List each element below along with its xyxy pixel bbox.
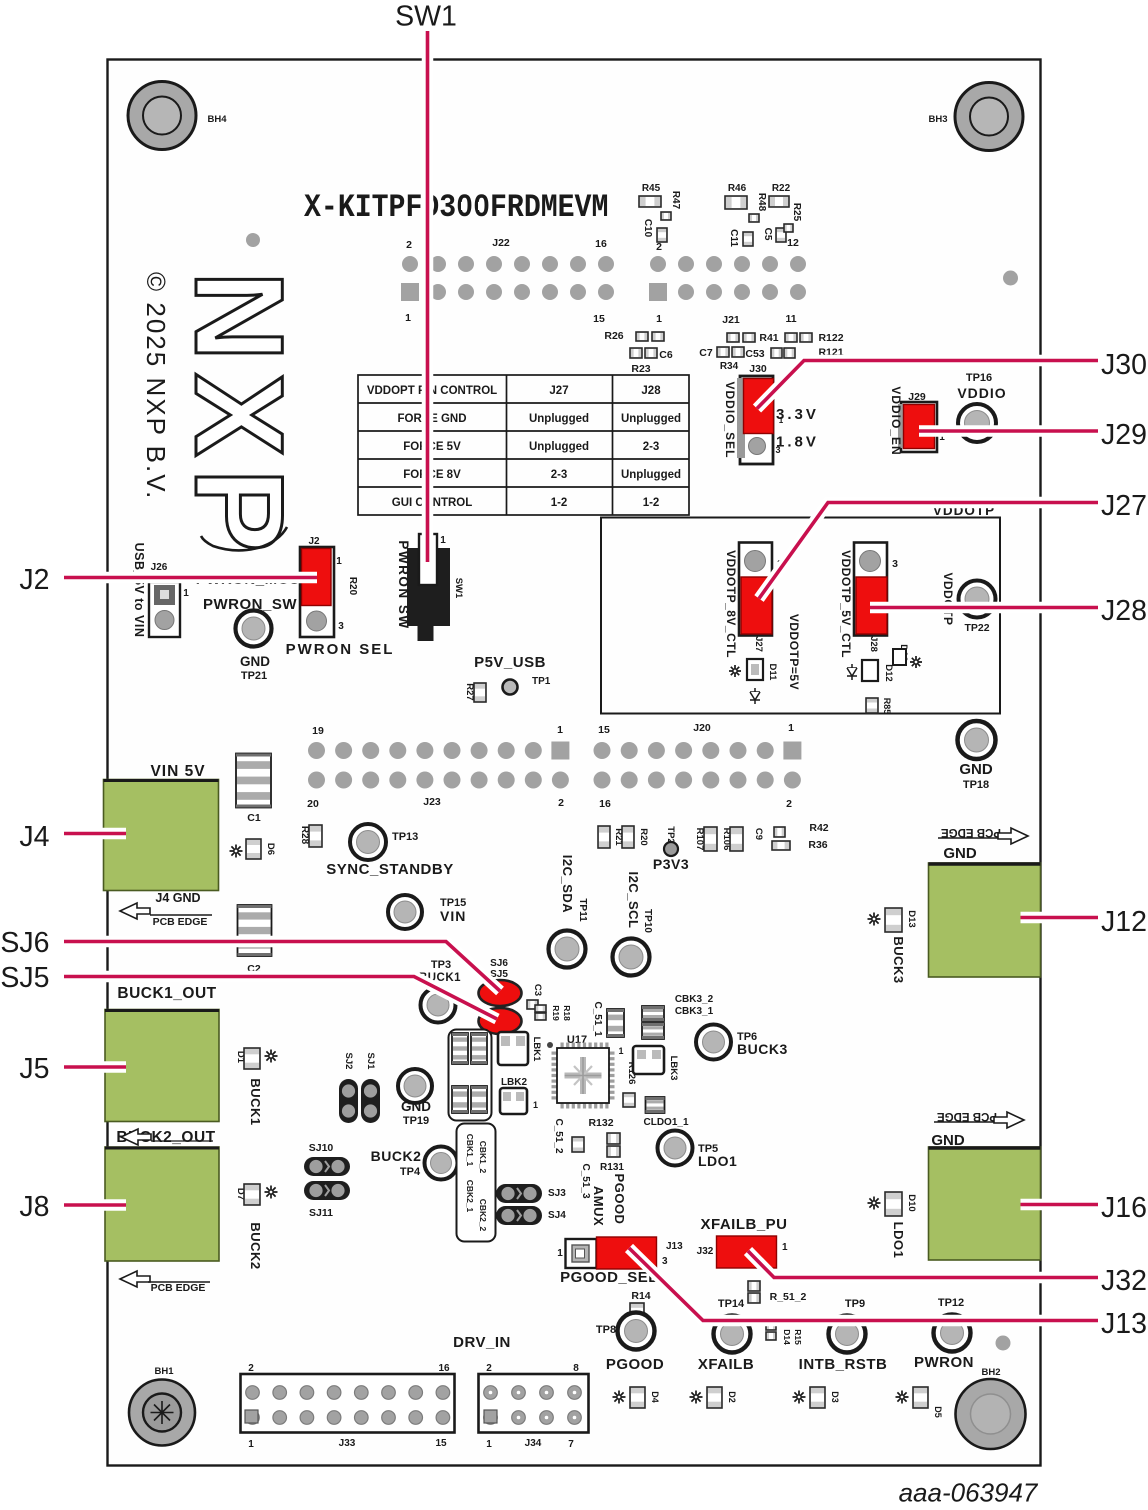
leader J27: [759, 503, 1098, 599]
mounting hole BH1: [129, 1380, 195, 1446]
LED D4: [613, 1387, 661, 1408]
svg-text:TP11: TP11: [577, 898, 588, 922]
svg-text:CBK1_2: CBK1_2: [478, 1141, 488, 1174]
capacitor CLDO1_1: [643, 1097, 688, 1128]
svg-text:3: 3: [892, 558, 898, 570]
resistor R22: [769, 183, 791, 207]
svg-text:15: 15: [593, 313, 605, 325]
svg-text:J4: J4: [19, 821, 49, 853]
svg-text:SJ6: SJ6: [0, 927, 49, 959]
svg-text:R34: R34: [720, 361, 739, 372]
resistor R121: [818, 347, 843, 359]
board title: [304, 190, 608, 226]
svg-text:C53: C53: [745, 348, 764, 360]
svg-text:R20: R20: [638, 828, 649, 845]
capacitor C7: [699, 347, 744, 359]
solder jumper SJ10: [304, 1142, 350, 1176]
svg-text:D11: D11: [767, 664, 778, 682]
PCB EDGE arrow J8: [120, 1271, 210, 1294]
resistor R21: [598, 826, 624, 848]
svg-text:J21: J21: [722, 314, 740, 326]
connector J34: [479, 1363, 589, 1450]
connector J5 BUCK1_OUT: [105, 985, 219, 1122]
connector J26: [149, 562, 189, 637]
resistor R26: [604, 330, 664, 342]
svg-text:VIN: VIN: [440, 908, 466, 924]
svg-text:CBK2_2: CBK2_2: [478, 1199, 488, 1232]
test point TP15 VIN: [388, 895, 466, 929]
svg-text:R25: R25: [791, 203, 802, 222]
svg-text:BH3: BH3: [928, 114, 947, 125]
test point TP2 P3V3: [653, 826, 689, 872]
svg-text:BUCK3: BUCK3: [891, 936, 906, 983]
svg-text:C9: C9: [753, 828, 764, 840]
solder jumper SJ1: [361, 1053, 380, 1123]
inductor LBK2: [500, 1077, 538, 1114]
LED D2: [690, 1387, 738, 1408]
svg-text:1-2: 1-2: [643, 497, 660, 509]
test point TP4 BUCK2: [371, 1147, 458, 1180]
svg-text:VDDOTP=5V: VDDOTP=5V: [787, 614, 801, 690]
svg-text:2: 2: [786, 798, 792, 810]
connector J23: [307, 724, 569, 810]
capacitor C5: [762, 228, 786, 242]
svg-text:J12: J12: [1101, 906, 1147, 938]
svg-text:2: 2: [248, 1363, 254, 1374]
svg-text:SJ11: SJ11: [309, 1207, 333, 1219]
PCB EDGE arrow J16 (mirrored silk): [931, 1110, 1024, 1149]
leader J28: [870, 602, 1098, 614]
connector J21: [649, 237, 806, 326]
svg-text:D6: D6: [265, 843, 276, 855]
svg-text:TP18: TP18: [963, 779, 989, 791]
svg-text:TP19: TP19: [403, 1115, 429, 1127]
svg-text:R26: R26: [604, 330, 623, 342]
test point TP8 PGOOD: [596, 1313, 664, 1374]
svg-text:J32: J32: [697, 1246, 714, 1257]
connector J16 GND: [929, 1147, 1041, 1260]
svg-text:R45: R45: [642, 183, 661, 194]
solder jumper SJ2: [339, 1053, 358, 1123]
capacitor C11: [728, 229, 753, 247]
resistor R_51_2: [748, 1281, 807, 1303]
svg-text:1: 1: [557, 724, 563, 736]
capacitor C_51_1: [592, 1001, 624, 1037]
svg-text:C11: C11: [728, 229, 739, 247]
svg-text:R19: R19: [551, 1005, 561, 1021]
svg-text:VDDOTP_5V_CTL: VDDOTP_5V_CTL: [839, 550, 853, 658]
LED D5: [896, 1387, 944, 1418]
svg-text:15: 15: [435, 1438, 447, 1449]
leader J2: [64, 572, 317, 584]
diode D12: [847, 660, 894, 682]
svg-text:LBK2: LBK2: [501, 1077, 528, 1088]
label BUCK2_OUT + edge arrow: [116, 1129, 215, 1146]
svg-text:J13: J13: [666, 1241, 683, 1252]
resistor R126: [623, 1062, 637, 1107]
svg-text:1: 1: [405, 312, 411, 324]
leader J8: [64, 1199, 126, 1211]
svg-text:J29: J29: [1101, 419, 1147, 451]
diode D6: [230, 839, 277, 859]
svg-text:C5: C5: [762, 228, 773, 241]
resistor R107: [694, 827, 717, 851]
test point TP14 XFAILB: [698, 1298, 754, 1373]
solder jumper SJ3: [496, 1184, 566, 1203]
svg-text:SJ2: SJ2: [343, 1053, 354, 1070]
svg-text:VIN 5V: VIN 5V: [150, 763, 205, 780]
test point TP6 BUCK3: [696, 1025, 788, 1060]
svg-text:C_51_1: C_51_1: [592, 1001, 603, 1036]
svg-text:C10: C10: [642, 219, 653, 238]
connector J4 VIN 5V: [104, 763, 219, 905]
PCB EDGE arrow J4: [120, 903, 212, 928]
svg-text:R48: R48: [756, 193, 767, 212]
jumper J27: [739, 543, 783, 652]
svg-text:R18: R18: [562, 1005, 572, 1021]
svg-text:2-3: 2-3: [551, 469, 568, 481]
svg-text:PCB EDGE: PCB EDGE: [941, 826, 1001, 838]
test point TP19 GND: [398, 1069, 432, 1127]
svg-text:1: 1: [183, 588, 189, 599]
svg-text:16: 16: [595, 238, 607, 250]
svg-text:J27: J27: [1101, 490, 1147, 522]
svg-text:3: 3: [662, 1256, 668, 1267]
capacitor C1: [236, 754, 271, 825]
svg-text:BUCK2: BUCK2: [248, 1222, 263, 1269]
svg-text:USB_5V to VIN: USB_5V to VIN: [132, 543, 146, 638]
svg-text:J32: J32: [1101, 1265, 1147, 1297]
svg-text:PWRON SEL: PWRON SEL: [286, 641, 395, 658]
resistor R46: [725, 183, 747, 209]
svg-text:SW1: SW1: [453, 578, 464, 599]
svg-text:R132: R132: [588, 1117, 613, 1129]
svg-text:XFAILB_PU: XFAILB_PU: [700, 1216, 787, 1233]
test point TP12 PWRON: [914, 1297, 974, 1371]
svg-text:J28: J28: [1101, 595, 1147, 627]
IC U17: [547, 1034, 615, 1109]
svg-text:TP12: TP12: [938, 1297, 964, 1309]
svg-text:CLDO1_1: CLDO1_1: [643, 1117, 688, 1128]
svg-text:12: 12: [787, 237, 799, 249]
svg-text:J33: J33: [339, 1438, 356, 1449]
resistor R36: [808, 839, 827, 851]
svg-text:R46: R46: [728, 183, 747, 194]
svg-text:PWRON: PWRON: [914, 1354, 974, 1371]
svg-text:BUCK3: BUCK3: [737, 1041, 788, 1057]
svg-text:J28: J28: [868, 636, 879, 652]
test point TP5 LDO1: [658, 1131, 738, 1170]
svg-text:R20: R20: [347, 577, 358, 596]
svg-text:PGOOD_SEL: PGOOD_SEL: [560, 1269, 658, 1286]
svg-text:LBK1: LBK1: [531, 1037, 542, 1063]
test point TP10 I2C_SCL: [613, 872, 654, 976]
svg-text:8: 8: [573, 1363, 579, 1374]
svg-text:20: 20: [307, 798, 319, 810]
connector J8 BUCK2_OUT: [105, 1147, 219, 1261]
svg-text:BUCK1_OUT: BUCK1_OUT: [117, 985, 216, 1002]
svg-text:GND: GND: [401, 1099, 431, 1114]
svg-text:J13: J13: [1101, 1308, 1147, 1340]
svg-text:D4: D4: [650, 1391, 660, 1403]
connector J33: [241, 1363, 455, 1450]
svg-text:C3: C3: [532, 984, 543, 996]
svg-text:Unplugged: Unplugged: [621, 469, 681, 481]
diode D1 BUCK1: [235, 1048, 278, 1126]
svg-text:BH2: BH2: [981, 1367, 1000, 1378]
test point TP13 SYNC_STANDBY: [326, 824, 453, 878]
resistor R47: [661, 191, 681, 220]
diode D10b: [893, 644, 922, 668]
svg-text:2: 2: [486, 1363, 492, 1374]
leader SJ6: [64, 942, 500, 992]
svg-text:Unplugged: Unplugged: [529, 413, 589, 425]
svg-text:R85: R85: [882, 698, 892, 715]
resistor R42: [772, 822, 829, 850]
svg-text:Unplugged: Unplugged: [529, 441, 589, 453]
svg-text:J5: J5: [19, 1053, 49, 1085]
svg-text:1: 1: [618, 1046, 623, 1056]
svg-text:J30: J30: [749, 363, 767, 375]
capacitor C6: [630, 348, 673, 361]
jumper J28: [854, 543, 898, 652]
svg-text:PWRON SW: PWRON SW: [396, 540, 411, 629]
leader J16: [1021, 1199, 1099, 1211]
svg-text:1: 1: [248, 1439, 254, 1450]
svg-text:19: 19: [312, 725, 324, 737]
svg-text:TP3: TP3: [431, 959, 451, 971]
svg-text:C1: C1: [247, 812, 261, 824]
svg-text:R23: R23: [631, 363, 650, 375]
svg-text:VDDOTP_8V_CTL: VDDOTP_8V_CTL: [724, 550, 738, 658]
diode D13 BUCK3: [868, 908, 918, 984]
connector J12 GND: [929, 863, 1041, 977]
svg-text:2: 2: [656, 241, 662, 253]
resistor R45: [639, 183, 661, 207]
leader J13: [629, 1248, 1098, 1321]
svg-text:SJ6: SJ6: [490, 958, 508, 969]
svg-text:1: 1: [557, 1248, 563, 1259]
svg-text:1.8V: 1.8V: [776, 434, 819, 451]
svg-text:PCB EDGE: PCB EDGE: [153, 916, 208, 928]
connector J20: [594, 722, 802, 810]
capacitor bank CBK1/CBK2 labels: [457, 1124, 496, 1242]
svg-text:BUCK2: BUCK2: [371, 1148, 422, 1164]
svg-text:SJ3: SJ3: [548, 1188, 566, 1199]
jumper option table: [358, 375, 689, 515]
resistor R18: [535, 1005, 572, 1021]
svg-text:Unplugged: Unplugged: [621, 413, 681, 425]
inductor LBK3: [618, 1046, 679, 1080]
resistor R85: [866, 698, 892, 715]
svg-text:C6: C6: [659, 349, 673, 361]
svg-text:NXP: NXP: [169, 271, 308, 564]
resistor R106: [721, 827, 743, 851]
svg-text:D10: D10: [906, 1194, 917, 1211]
jumper J30: [737, 363, 784, 464]
copyright text: [141, 272, 171, 500]
resistor R23: [631, 363, 650, 375]
svg-text:PCB EDGE: PCB EDGE: [937, 1110, 997, 1122]
connector J22: [401, 237, 614, 325]
svg-text:R14: R14: [631, 1290, 650, 1302]
capacitor C53: [745, 348, 795, 360]
svg-text:TP8: TP8: [596, 1324, 616, 1336]
svg-text:1: 1: [486, 1439, 492, 1450]
VDDOTP option box: [601, 518, 1000, 714]
svg-text:R22: R22: [772, 183, 791, 194]
fiducial dot: [996, 1336, 1011, 1351]
svg-text:C_51_2: C_51_2: [553, 1118, 564, 1153]
svg-text:D3: D3: [830, 1391, 840, 1403]
svg-text:J27: J27: [753, 636, 764, 652]
svg-text:SW1: SW1: [395, 1, 457, 33]
svg-text:VDDIO_SEL: VDDIO_SEL: [723, 381, 737, 458]
svg-text:CBK1_1: CBK1_1: [465, 1134, 475, 1167]
jumper J13 PGOOD_SEL: [557, 1237, 683, 1269]
svg-text:SYNC_STANDBY: SYNC_STANDBY: [326, 861, 453, 878]
svg-text:J20: J20: [693, 722, 711, 734]
resistor R14: [630, 1290, 651, 1319]
svg-text:BH4: BH4: [207, 114, 227, 125]
leader SW1: [422, 31, 434, 562]
svg-text:GND: GND: [943, 845, 977, 862]
leader J4: [64, 828, 126, 840]
svg-text:R131: R131: [600, 1162, 624, 1173]
svg-text:C7: C7: [699, 347, 713, 359]
svg-text:BUCK1: BUCK1: [248, 1078, 263, 1125]
diode D10 LDO1: [868, 1192, 918, 1258]
solder jumper SJ5: [479, 969, 522, 1034]
jumper J32: [697, 1236, 788, 1268]
svg-text:PCB EDGE: PCB EDGE: [151, 1282, 206, 1294]
capacitor C_51_2: [553, 1118, 584, 1153]
svg-text:J8: J8: [19, 1191, 49, 1223]
leader J29: [919, 425, 1098, 437]
svg-text:3: 3: [338, 621, 344, 632]
solder jumper SJ11: [304, 1181, 350, 1219]
svg-text:D5: D5: [933, 1406, 943, 1418]
diode D7 BUCK2: [235, 1184, 278, 1270]
svg-text:SJ5: SJ5: [0, 962, 49, 994]
svg-text:DRV_IN: DRV_IN: [453, 1334, 511, 1351]
leader J12: [1021, 912, 1099, 924]
leader SJ5: [64, 977, 497, 1020]
svg-text:XFAILB: XFAILB: [698, 1356, 754, 1373]
svg-text:1: 1: [440, 535, 446, 546]
svg-text:15: 15: [598, 724, 610, 736]
svg-text:J34: J34: [525, 1438, 542, 1449]
fiducial dot: [246, 233, 260, 247]
svg-text:VDDOTP: VDDOTP: [941, 572, 955, 625]
capacitor C9: [753, 827, 785, 840]
svg-text:7: 7: [568, 1439, 574, 1450]
resistor R41: [727, 332, 779, 344]
svg-text:SJ10: SJ10: [309, 1142, 334, 1154]
svg-text:J28: J28: [641, 385, 661, 397]
svg-text:VDDIO_EN: VDDIO_EN: [889, 386, 903, 455]
svg-text:aaa-063947: aaa-063947: [899, 1478, 1039, 1508]
resistor R122: [785, 332, 844, 344]
svg-text:J2: J2: [19, 564, 49, 596]
resistor R20b: [622, 826, 649, 848]
resistor R28: [299, 825, 322, 847]
svg-text:TP13: TP13: [392, 831, 418, 843]
svg-text:TP14: TP14: [718, 1298, 745, 1310]
resistor R132: [588, 1117, 620, 1157]
svg-text:PGOOD: PGOOD: [606, 1356, 664, 1373]
diode D14 R15 small: [766, 1322, 803, 1345]
solder jumper SJ6: [479, 958, 522, 1006]
svg-text:J23: J23: [423, 796, 441, 808]
svg-text:1: 1: [782, 1242, 788, 1253]
svg-text:J26: J26: [151, 562, 168, 573]
svg-text:CBK2_1: CBK2_1: [465, 1180, 475, 1213]
svg-text:LBK3: LBK3: [668, 1056, 679, 1081]
mounting hole BH3: [955, 83, 1023, 151]
leader J5: [64, 1061, 126, 1073]
svg-text:R41: R41: [759, 332, 778, 344]
test point TP11 I2C_SDA: [549, 855, 589, 968]
svg-text:LDO1: LDO1: [891, 1222, 906, 1259]
svg-text:SJ4: SJ4: [548, 1210, 566, 1221]
svg-text:D13: D13: [906, 910, 917, 927]
test point TP22 VDDOTP: [941, 572, 996, 634]
resistor R25: [784, 203, 802, 232]
svg-text:R15: R15: [793, 1329, 803, 1345]
svg-text:BH1: BH1: [154, 1366, 174, 1377]
svg-text:2: 2: [406, 239, 412, 251]
svg-text:I2C_SDA: I2C_SDA: [560, 855, 575, 914]
svg-text:J22: J22: [492, 237, 510, 249]
svg-text:TP21: TP21: [241, 670, 267, 682]
resistor R48: [749, 193, 767, 222]
svg-text:D12: D12: [883, 664, 894, 681]
jumper J2: [300, 536, 344, 637]
svg-text:2-3: 2-3: [643, 441, 660, 453]
svg-text:X-KITPFD300FRDMEVM: X-KITPFD300FRDMEVM: [304, 190, 608, 226]
mounting hole BH4: [128, 82, 196, 150]
svg-text:J27: J27: [549, 385, 568, 397]
svg-text:C_51_3: C_51_3: [580, 1163, 591, 1198]
test point TP3 BUCK1: [419, 959, 461, 1023]
capacitor C10: [642, 219, 667, 242]
test point TP1: [503, 676, 551, 695]
svg-text:R47: R47: [670, 191, 681, 210]
svg-text:P3V3: P3V3: [653, 856, 689, 872]
svg-text:J2: J2: [308, 536, 320, 547]
svg-text:D14: D14: [782, 1329, 792, 1345]
svg-text:11: 11: [785, 313, 796, 325]
capacitor bank CBK: [449, 1030, 492, 1121]
test point TP21 GND: [236, 611, 272, 683]
svg-text:1: 1: [533, 1100, 538, 1110]
svg-text:D2: D2: [727, 1391, 737, 1403]
svg-text:R_51_2: R_51_2: [770, 1291, 807, 1303]
svg-text:P5V_USB: P5V_USB: [474, 654, 546, 671]
capacitor C2: [238, 905, 272, 975]
mounting hole BH2: [956, 1379, 1026, 1449]
svg-text:J30: J30: [1101, 349, 1147, 381]
test point TP16 VDDIO: [957, 372, 1006, 442]
test point TP9 INTB_RSTB: [799, 1298, 888, 1373]
svg-text:R122: R122: [818, 332, 843, 344]
leader J30: [757, 361, 1098, 409]
svg-text:TP4: TP4: [400, 1166, 421, 1178]
svg-text:R36: R36: [808, 839, 827, 851]
solder jumper SJ4: [496, 1206, 566, 1225]
svg-text:1-2: 1-2: [551, 497, 568, 509]
